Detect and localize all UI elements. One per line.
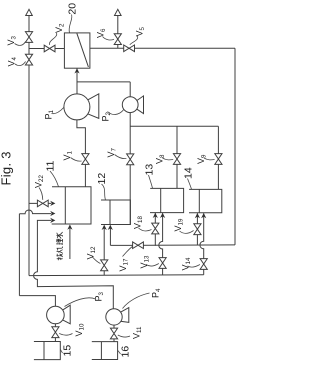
kanji mizu (水) — [56, 232, 62, 239]
leader V17 — [123, 247, 133, 257]
valve V8 — [173, 154, 180, 165]
tank 12 partition — [109, 200, 111, 225]
wire exhaust stack right (V6 line) — [117, 15, 119, 48]
valve V2 — [44, 45, 55, 52]
heat exchanger 20 — [64, 33, 90, 68]
leader V22 — [39, 188, 43, 200]
kanji hi (被) — [57, 253, 63, 260]
valve V1 — [82, 154, 89, 165]
tank 16 — [92, 342, 118, 360]
leader V6 — [103, 37, 115, 40]
pump P1 horn — [87, 94, 99, 119]
tank 14 — [189, 189, 222, 212]
svg-text:13: 13 — [144, 164, 156, 176]
tank 12 — [101, 200, 130, 225]
valve V11 — [110, 328, 117, 339]
pump P3 horn — [62, 305, 70, 324]
valve V19 — [194, 224, 201, 235]
kanji ri (理) — [57, 239, 63, 245]
wire return manifold (V17 line) — [110, 244, 235, 247]
wire V12 drop from tank 12 to lower manifold — [103, 226, 105, 276]
leader V12 — [92, 257, 100, 264]
pump P2 — [122, 97, 138, 113]
arrow exhaust right — [115, 9, 122, 15]
leader 20 — [69, 15, 72, 33]
tank 15 partition — [43, 342, 45, 360]
leader V3 — [15, 42, 26, 46]
valve V9 — [215, 154, 222, 165]
leader 13 — [149, 175, 153, 188]
valve V5 — [124, 45, 135, 52]
wire V22 branch into tank 11 — [29, 202, 51, 204]
leader V4 — [15, 62, 26, 66]
wire box 20 bottom to pump P1 — [76, 69, 78, 94]
leader V14 — [188, 265, 200, 268]
wire P3 feed corner — [19, 296, 55, 307]
leader P1 — [52, 108, 64, 114]
leader V7 — [115, 155, 127, 159]
leader V11 — [118, 335, 130, 337]
leader V18 — [139, 228, 152, 231]
leader 14 — [188, 179, 192, 190]
arrow V19 line into tank 14 — [195, 213, 200, 218]
leader V10 — [59, 334, 72, 336]
tank 13 — [150, 188, 184, 212]
svg-text:20: 20 — [67, 3, 79, 15]
pump P2 horn — [136, 96, 143, 114]
arrow V13 line into tank 13 — [160, 213, 165, 218]
leader 11 — [50, 171, 59, 187]
leader 16 — [118, 351, 121, 355]
svg-text:12: 12 — [96, 173, 108, 185]
leader V5 — [130, 36, 138, 45]
svg-text:16: 16 — [120, 346, 132, 358]
wire P4 riser to tank 11 inlet 3 with hop — [34, 220, 114, 309]
wire V19 riser under tank 14 — [196, 213, 198, 245]
valve V10 — [52, 327, 59, 338]
wire feed water inlet into tank 11 bottom — [69, 226, 71, 259]
wire V9 drop into tank 14 — [217, 126, 219, 189]
leader P3 — [65, 298, 96, 307]
wire riser into tank 12 bottom — [109, 226, 111, 246]
tank 16 partition — [100, 342, 102, 360]
arrow inlet 2 into tank 11 — [50, 211, 55, 216]
arrow exhaust left — [26, 9, 33, 15]
svg-text:11: 11 — [45, 160, 57, 171]
arrow inlet 3 into tank 11 — [50, 218, 55, 223]
valve V6 — [114, 34, 121, 45]
wire V14 drop from tank 14 with hop over return manifold — [200, 213, 204, 274]
leader V1 — [71, 158, 82, 162]
arrow V18 line into tank 13 — [153, 213, 158, 218]
tank 11 — [52, 187, 91, 224]
wire V18 riser under tank 13 — [154, 213, 156, 246]
wire main line from V3 junction to box 20 — [29, 48, 64, 50]
leader V19 — [180, 231, 194, 234]
arrow V14 line into tank 14 — [201, 213, 206, 218]
wire exhaust stack left (V3/V4 line top) — [28, 15, 30, 54]
arrow return riser into tank 12 — [108, 225, 113, 230]
wire lower manifold (to V12 V13 V14) — [29, 274, 204, 277]
wire P2 suction drop — [129, 82, 131, 97]
wire branch header to V8 and V9 — [130, 125, 218, 127]
wire header P1 to P2 — [77, 81, 130, 83]
wire P3 discharge through V10 to tank 15 — [54, 324, 56, 342]
leader P2 — [108, 110, 124, 115]
pump P1 — [64, 94, 90, 120]
pump P4 — [106, 309, 122, 325]
leader V9 — [204, 158, 215, 160]
arrow V12 line into tank 12 — [102, 225, 107, 230]
wire V13 drop from tank 13 with hop over return manifold — [159, 213, 163, 275]
tank 11 partition — [64, 187, 66, 224]
leader P4 — [123, 293, 150, 309]
wire P3 riser to tank 11 inlet 2 with hop — [19, 210, 51, 296]
pump P4 horn — [121, 308, 129, 323]
valve V14 — [200, 259, 207, 270]
leader V2 — [49, 33, 56, 45]
wire P4 discharge through V11 to tank 16 — [113, 325, 115, 341]
valve V13 — [159, 258, 166, 269]
valve V7 — [127, 154, 134, 165]
svg-text:Fig. 3: Fig. 3 — [0, 151, 14, 185]
label feed water (hand-drawn kanji, rotated) — [56, 232, 62, 260]
valve V3 — [25, 32, 32, 43]
kanji sho (処) — [57, 246, 63, 252]
valve V18 — [152, 223, 159, 234]
valve V17 — [133, 242, 144, 249]
wire V4 down to lower manifold — [28, 65, 30, 276]
tank 13 partition — [160, 188, 162, 212]
svg-text:14: 14 — [183, 167, 195, 179]
pump P3 — [47, 306, 65, 324]
diagonal of box 20 — [77, 33, 89, 67]
valve V22 — [37, 200, 48, 207]
arrow V22 into tank 11 — [50, 201, 55, 206]
valve V12 — [101, 260, 108, 271]
arrow into box 20 bottom — [74, 68, 79, 73]
leader 12 — [102, 184, 106, 200]
leader 15 — [61, 350, 63, 354]
wire box 20 outlet to right downcomer — [90, 47, 235, 49]
arrow feed water into tank 11 bottom — [67, 225, 72, 230]
leader V13 — [146, 264, 159, 267]
tank 14 partition — [198, 189, 200, 212]
tank 15 — [34, 342, 60, 360]
wire P1 discharge jog through V1 into tank 11 — [77, 120, 86, 187]
wire P2 discharge through V7 to tank 12 — [129, 113, 131, 225]
leader V8 — [163, 158, 174, 160]
svg-text:15: 15 — [62, 345, 74, 357]
wire V8 drop into tank 13 — [176, 126, 178, 188]
valve V4 — [25, 54, 32, 65]
wire return downcomer right edge — [234, 48, 236, 245]
